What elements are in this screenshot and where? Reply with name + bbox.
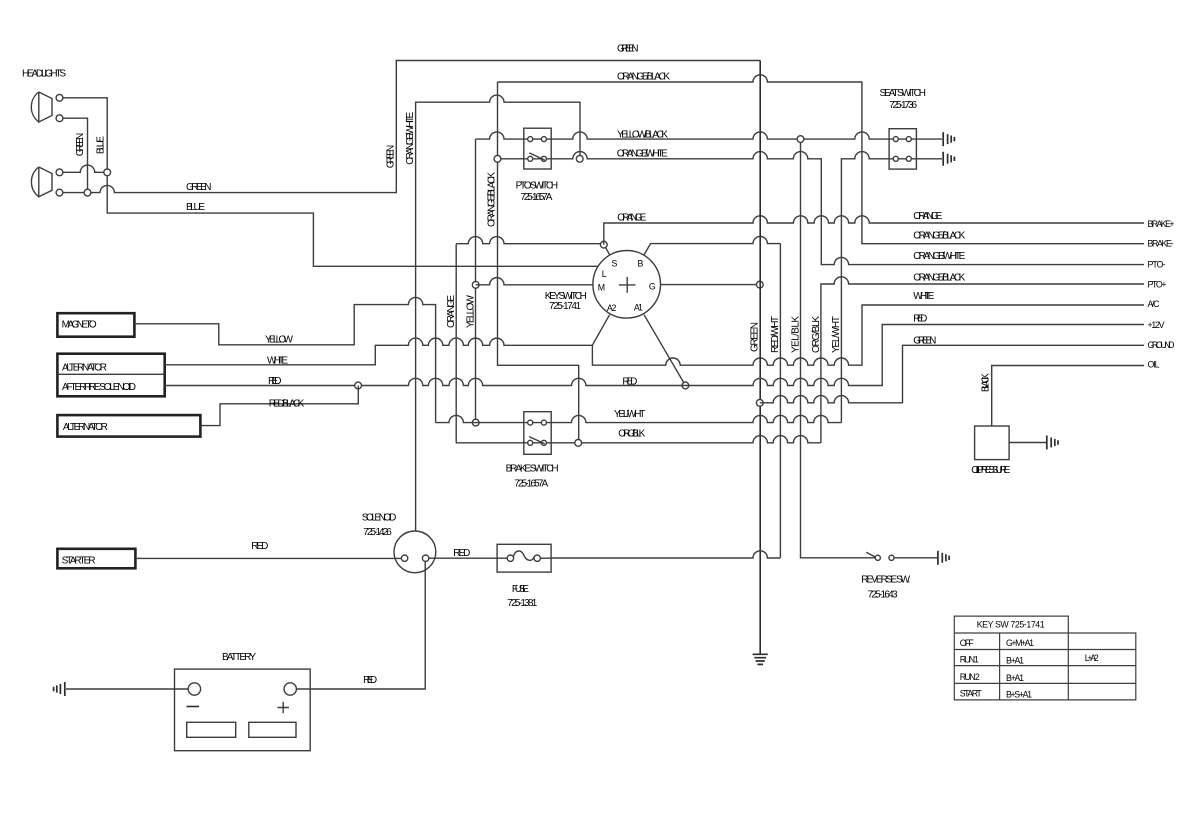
svg-text:ALTERNATOR: ALTERNATOR: [62, 363, 107, 374]
junction BLUE at lower lamp: [104, 169, 111, 176]
svg-text:START: START: [960, 689, 983, 699]
junction RED/RED-BLACK: [355, 382, 362, 389]
svg-text:ORANGE: ORANGE: [913, 211, 942, 222]
svg-text:OIL: OIL: [1148, 360, 1160, 370]
svg-text:725-1657A: 725-1657A: [520, 192, 552, 203]
svg-text:YEL/WHT: YEL/WHT: [614, 409, 646, 420]
PTO contact bot-right: [541, 156, 546, 161]
svg-text:GROUND: GROUND: [1148, 340, 1175, 350]
wire ORG/BLK row (brake bottom): [456, 436, 821, 443]
ground seat switch bottom: [943, 152, 954, 166]
solenoid contact right: [422, 555, 428, 561]
svg-text:HEADLIGHTS: HEADLIGHTS: [22, 69, 66, 80]
battery cell rect left: [187, 722, 236, 737]
svg-text:G: G: [649, 282, 656, 292]
battery terminal plus: [284, 683, 296, 695]
wire WHITE from alternator: [165, 338, 593, 365]
ground seat switch top: [943, 132, 954, 146]
PTO switch blade: [529, 153, 545, 160]
wire oil pressure to ground: [1009, 442, 1046, 444]
wire RED battery to solenoid: [296, 561, 425, 689]
wire YELLOW vertical (from YEL/BLK row corner): [475, 139, 477, 423]
svg-text:L+A2: L+A2: [1085, 653, 1099, 663]
wire YEL/BLK bus + reverse switch row: [801, 139, 876, 558]
svg-text:BATTERY: BATTERY: [222, 652, 256, 663]
svg-text:ORANGE/BLACK: ORANGE/BLACK: [913, 230, 965, 241]
svg-text:ORANGE/BLACK: ORANGE/BLACK: [617, 72, 670, 83]
svg-text:RED: RED: [251, 541, 268, 552]
PTO contact bot-left: [528, 156, 533, 161]
svg-text:RED: RED: [363, 675, 377, 686]
svg-text:KEY SW 725-1741: KEY SW 725-1741: [977, 620, 1045, 630]
svg-text:GREEN: GREEN: [617, 44, 639, 55]
svg-text:ORG/BLK: ORG/BLK: [811, 316, 822, 353]
brake switch blade: [529, 437, 545, 444]
headlight lamp upper: [31, 92, 52, 122]
wire YELLOW/BLACK row: [476, 132, 943, 139]
wire solenoid top from orange/white: [415, 530, 417, 532]
svg-text:ORANGE/WHITE: ORANGE/WHITE: [913, 251, 965, 262]
key switch circle: [593, 250, 661, 318]
svg-text:L: L: [602, 269, 607, 279]
svg-text:YEL/BLK: YEL/BLK: [790, 316, 801, 353]
wire ORANGE/WHITE row (PTO bottom) to PTO-: [498, 152, 1145, 265]
seat contact bot-right: [906, 156, 911, 161]
junction PTO right column: [576, 155, 583, 162]
junction GREEN bus at GROUND row: [756, 399, 763, 406]
headlight lamp lower: [31, 167, 52, 197]
wire A2 diagonal and A/C run: [592, 305, 1144, 365]
BATTERY box: [175, 669, 311, 751]
svg-text:RED: RED: [268, 376, 282, 387]
junction S/ORANGE: [600, 241, 607, 248]
svg-text:RED: RED: [622, 376, 637, 387]
svg-text:AFTERFIRE SOLENOID: AFTERFIRE SOLENOID: [62, 382, 136, 393]
wire YEL/WHT bus + seat row: [841, 152, 942, 423]
brake contact bot-left: [528, 440, 533, 445]
ground reverse switch: [938, 551, 949, 565]
headlight terminal 2a: [56, 169, 63, 176]
PTO contact top-right: [541, 137, 546, 142]
junction ORANGE/BLACK at PTO row: [494, 155, 501, 162]
wire G row: [661, 284, 760, 286]
key switch + mark: [619, 277, 636, 293]
wire M row: [476, 278, 593, 285]
seat contact top-right: [906, 137, 911, 142]
svg-text:KEY SWITCH: KEY SWITCH: [545, 291, 587, 302]
svg-text:BLUE: BLUE: [186, 202, 205, 213]
PTO contact top-left: [528, 137, 533, 142]
wire GREEN to GROUND terminal: [760, 345, 1144, 403]
headlight terminal 1a: [56, 94, 63, 101]
wire ORG/BLK bus lower + PTO+ row: [821, 277, 1144, 443]
wire YEL/WHT row (brake top): [436, 415, 842, 422]
brake switch box: [524, 412, 551, 455]
svg-text:725-1381: 725-1381: [507, 598, 537, 609]
lower ALTERNATOR box: [57, 415, 200, 437]
solenoid contact left: [401, 555, 407, 561]
wire YELLOW from magneto: [134, 297, 435, 422]
STARTER box: [57, 549, 135, 569]
svg-text:725-1657A: 725-1657A: [514, 478, 548, 489]
brake contact top-left: [528, 420, 533, 425]
wire ORANGE row to BRAKE+: [604, 216, 1144, 245]
junction GREEN at lower lamp: [84, 189, 91, 196]
wire B terminal to RED/WHT bus: [644, 236, 781, 255]
ALTERNATOR/AFTERFIRE box: [57, 354, 164, 397]
svg-text:OFF: OFF: [960, 638, 975, 648]
fuse box: [497, 544, 551, 572]
svg-text:SOLENOID: SOLENOID: [362, 512, 397, 523]
svg-text:BRAKE-: BRAKE-: [1148, 239, 1174, 249]
wire BLUE headlights to key switch L: [63, 98, 598, 266]
headlight terminal 1b: [56, 115, 63, 122]
battery cell rect right: [249, 722, 296, 737]
svg-text:BLUE: BLUE: [95, 136, 106, 154]
PTO switch box: [524, 128, 551, 169]
svg-text:RED: RED: [453, 548, 470, 559]
wire A1 diagonal: [644, 315, 685, 386]
svg-text:ORANGE: ORANGE: [446, 295, 457, 328]
seat contact bot-left: [893, 156, 898, 161]
svg-text:BLACK: BLACK: [980, 373, 991, 392]
svg-text:BRAKE SWITCH: BRAKE SWITCH: [506, 463, 559, 474]
wire GREEN bus vertical: [759, 61, 761, 655]
svg-text:GREEN: GREEN: [75, 133, 86, 157]
wire RED/BLACK: [200, 386, 358, 426]
svg-text:GREEN: GREEN: [749, 322, 760, 352]
seat switch box: [889, 129, 916, 169]
wire RED solenoid to fuse: [429, 557, 497, 559]
ground oil pressure: [1047, 436, 1058, 450]
wire S terminal diagonal: [605, 247, 610, 255]
wire RED/WHT bus: [779, 244, 781, 558]
svg-text:725-1741: 725-1741: [549, 301, 581, 312]
svg-text:ORANGE/BLACK: ORANGE/BLACK: [913, 272, 965, 283]
svg-text:725-1643: 725-1643: [868, 590, 898, 601]
wire RED from afterfire solenoid: [165, 325, 1144, 386]
reverse switch contact left: [875, 555, 880, 560]
svg-text:YEL/WHT: YEL/WHT: [831, 316, 842, 353]
svg-text:RED: RED: [913, 313, 927, 324]
wire GREEN upper lamp stub: [63, 118, 88, 192]
brake contact top-right: [541, 420, 546, 425]
oil pressure box: [975, 426, 1010, 460]
svg-text:OIL PRESSURE: OIL PRESSURE: [971, 465, 1010, 476]
svg-text:RUN 2: RUN 2: [960, 672, 980, 682]
wire ORANGE/BLACK vertical (PTO column): [498, 82, 579, 443]
svg-text:SEAT SWITCH: SEAT SWITCH: [880, 88, 927, 99]
svg-text:MAGNETO: MAGNETO: [62, 319, 97, 330]
svg-text:S: S: [612, 259, 618, 269]
svg-text:BRAKE+: BRAKE+: [1148, 219, 1175, 229]
svg-text:ORANGE: ORANGE: [617, 213, 646, 224]
battery plus sign: [278, 702, 290, 714]
svg-text:GREEN: GREEN: [186, 182, 212, 193]
wire reverse switch to ground: [894, 557, 938, 559]
ALTERNATOR/AFTERFIRE divider: [57, 373, 164, 375]
junction A1 at RED row: [682, 382, 689, 389]
svg-text:725-1426: 725-1426: [363, 527, 392, 538]
svg-text:G+M+A1: G+M+A1: [1006, 638, 1034, 648]
wire GREEN long run: [63, 61, 760, 193]
junction YELLOW vert at brake row: [472, 419, 479, 426]
junction YELLOW vert at M row: [472, 281, 479, 288]
ground symbol GREEN bus: [753, 654, 768, 664]
svg-text:A1: A1: [634, 302, 643, 312]
wire battery minus to ground: [66, 688, 188, 690]
svg-text:YELLOW: YELLOW: [265, 335, 294, 346]
solenoid circle: [394, 531, 436, 573]
svg-text:GREEN: GREEN: [913, 335, 936, 346]
ground battery: [54, 682, 65, 696]
svg-text:M: M: [598, 283, 605, 293]
svg-text:REVERSE SW.: REVERSE SW.: [861, 575, 910, 586]
wire BLACK to OIL: [992, 366, 1144, 427]
wire fuse box stubs: [497, 557, 551, 559]
svg-text:ALTERNATOR: ALTERNATOR: [63, 422, 108, 433]
svg-text:725-1736: 725-1736: [889, 100, 917, 111]
wire ORANGE vertical column: [456, 237, 604, 244]
svg-text:WHITE: WHITE: [913, 291, 934, 302]
junction G row at GREEN bus: [756, 281, 763, 288]
svg-text:B+A1: B+A1: [1006, 673, 1024, 683]
battery minus sign: [187, 706, 200, 708]
fuse element curve: [513, 551, 534, 560]
svg-text:PTO-: PTO-: [1148, 260, 1166, 270]
wire ORANGE/WHITE vertical + row to PTO right: [416, 95, 580, 531]
svg-text:YELLOW/BLACK: YELLOW/BLACK: [617, 130, 668, 141]
reverse switch blade: [866, 552, 875, 557]
wire lower lamp top terminal: [63, 165, 107, 172]
wire ORANGE column vertical part: [455, 244, 457, 443]
svg-text:STARTER: STARTER: [62, 556, 96, 567]
svg-text:RED/BLACK: RED/BLACK: [269, 398, 305, 409]
svg-text:A2: A2: [607, 303, 617, 313]
junction ORG/BLK column at brake row: [575, 439, 582, 446]
svg-text:ORG/BLK: ORG/BLK: [618, 429, 645, 440]
reverse switch contact right: [889, 555, 894, 560]
wire RED starter to solenoid: [135, 557, 401, 559]
svg-text:PTO SWITCH: PTO SWITCH: [516, 181, 559, 192]
headlight terminal 2b: [56, 189, 63, 196]
svg-text:B+A1: B+A1: [1006, 655, 1024, 665]
svg-text:+12V: +12V: [1148, 320, 1165, 330]
svg-text:ORANGE/WHITE: ORANGE/WHITE: [405, 111, 416, 164]
svg-text:B+S+A1: B+S+A1: [1006, 690, 1032, 700]
svg-text:ORANGE/WHITE: ORANGE/WHITE: [617, 149, 668, 160]
svg-text:WHITE: WHITE: [267, 356, 288, 367]
svg-text:FUSE: FUSE: [512, 584, 529, 595]
svg-text:A/C: A/C: [1148, 299, 1161, 309]
svg-text:B: B: [638, 259, 644, 269]
svg-text:RUN 1: RUN 1: [960, 654, 979, 664]
svg-text:GREEN: GREEN: [386, 145, 397, 169]
fuse contact right: [534, 555, 540, 561]
svg-text:PTO+: PTO+: [1148, 279, 1167, 289]
svg-text:ORANGE/BLACK: ORANGE/BLACK: [486, 172, 497, 227]
key sw table outline: [954, 616, 1136, 700]
MAGNETO box: [57, 313, 134, 337]
brake contact bot-right: [541, 440, 546, 445]
wire RED fuse to RED/WHT bus: [551, 551, 780, 558]
svg-text:RED/WHT: RED/WHT: [770, 316, 781, 353]
junction YEL/BLK bus top: [797, 136, 804, 143]
fuse contact left: [507, 555, 513, 561]
svg-text:YELLOW: YELLOW: [465, 294, 476, 328]
seat contact top-left: [893, 137, 898, 142]
battery terminal minus: [188, 683, 200, 695]
wire ORANGE/BLACK top row to BRAKE-: [498, 75, 1145, 244]
